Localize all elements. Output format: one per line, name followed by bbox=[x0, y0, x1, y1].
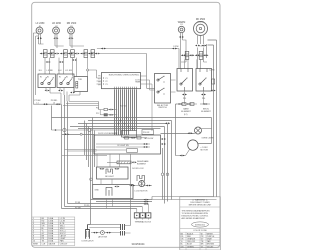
surface relay 2 bbox=[196, 69, 212, 92]
svg-text:TOD: TOD bbox=[78, 79, 83, 81]
wire to oven selector bbox=[97, 54, 155, 89]
svg-text:FAN: FAN bbox=[60, 240, 64, 243]
right element coil 1 bbox=[181, 51, 195, 59]
svg-text:B.U.: B.U. bbox=[39, 70, 43, 72]
svg-text:OV LIGHT SW: OV LIGHT SW bbox=[117, 145, 129, 147]
right bus fuse bbox=[212, 79, 215, 84]
svg-text:L2 RD: L2 RD bbox=[209, 70, 215, 72]
svg-text:P2 BK: P2 BK bbox=[75, 202, 81, 204]
svg-text:TERMINAL BLOCK: TERMINAL BLOCK bbox=[135, 220, 152, 223]
right bus wires bbox=[208, 40, 217, 197]
wire connector row left bbox=[33, 103, 61, 105]
svg-text:GREEN: GREEN bbox=[187, 246, 194, 248]
svg-text:P3 RD: P3 RD bbox=[84, 205, 90, 207]
svg-text:P20: P20 bbox=[202, 98, 205, 100]
svg-text:P1: P1 bbox=[106, 78, 108, 80]
left feeder wires bbox=[33, 33, 38, 104]
wire leads element RR bbox=[70, 34, 84, 48]
svg-text:P19: P19 bbox=[183, 98, 186, 100]
bake element resistor row bbox=[177, 103, 197, 113]
door lock motor bbox=[129, 176, 152, 187]
electronic oven control bbox=[102, 73, 142, 89]
door latch switch block bbox=[94, 135, 161, 154]
surface relay 1 bbox=[177, 69, 193, 92]
color code text bbox=[181, 232, 216, 248]
bake element bar bbox=[107, 161, 137, 164]
wires below relays bbox=[185, 91, 204, 104]
junction dots on buses bbox=[116, 117, 134, 130]
wiring table text bbox=[33, 217, 68, 246]
wires coils to switches bbox=[45, 58, 77, 77]
bus line 5 bbox=[78, 128, 161, 130]
oven temp sensor box bbox=[74, 77, 88, 92]
wire leads element LR bbox=[55, 34, 64, 48]
svg-text:CLR: CLR bbox=[42, 244, 46, 246]
svg-text:ELEMENT: ELEMENT bbox=[201, 111, 211, 113]
infinite switch 1 bbox=[38, 74, 55, 88]
svg-text:ELECTRONIC OVEN CONTROL: ELECTRONIC OVEN CONTROL bbox=[109, 75, 140, 77]
bus line 4 bbox=[70, 127, 165, 204]
svg-text:GRAY: GRAY bbox=[207, 238, 213, 241]
svg-text:P11: P11 bbox=[96, 108, 99, 110]
info warning box bbox=[180, 197, 221, 250]
terminal feed wires bbox=[62, 200, 153, 209]
svg-text:P2: P2 bbox=[106, 81, 108, 83]
svg-text:1.5KW: 1.5KW bbox=[199, 45, 205, 47]
latch wiring bbox=[88, 224, 122, 232]
wires terminal block to right bus bbox=[152, 197, 217, 200]
oven light bbox=[195, 127, 212, 134]
svg-text:ELEMENT: ELEMENT bbox=[181, 111, 191, 113]
latch switch motor bbox=[101, 231, 105, 235]
svg-text:P6: P6 bbox=[98, 76, 100, 78]
right element coil 2 bbox=[195, 51, 209, 59]
latch block top label box bbox=[142, 130, 154, 135]
latch coil block bbox=[121, 154, 131, 236]
svg-text:P9: P9 bbox=[98, 85, 100, 87]
color code table bbox=[180, 232, 221, 250]
svg-text:BEFORE SERVICING UNIT: BEFORE SERVICING UNIT bbox=[189, 205, 212, 207]
svg-text:BK LIGHT: BK LIGHT bbox=[105, 176, 114, 178]
broil element stub bbox=[200, 103, 211, 113]
svg-text:DOOR LOCK: DOOR LOCK bbox=[132, 168, 144, 170]
svg-text:ORANGE: ORANGE bbox=[187, 238, 196, 241]
wire crossing lamps bbox=[62, 150, 107, 156]
wire leads warmer element bbox=[181, 32, 187, 68]
wire bus to right elements bbox=[97, 49, 179, 69]
bus line 3 bbox=[78, 124, 168, 202]
svg-text:318550151: 318550151 bbox=[195, 224, 206, 226]
wires coils to relays bbox=[185, 59, 201, 68]
svg-text:H2: H2 bbox=[47, 77, 49, 79]
wires left of EOC bbox=[63, 102, 100, 110]
bus line 6 bbox=[52, 129, 122, 131]
svg-text:TAN: TAN bbox=[207, 240, 211, 243]
EOC ribbon comb bbox=[115, 89, 137, 135]
coil group 2 (LR element coils) bbox=[60, 50, 80, 58]
wires below switches bbox=[46, 88, 80, 105]
EOC left pin labels bbox=[98, 76, 100, 87]
wire bundle to lamps bbox=[85, 118, 95, 185]
infinite switch 2 bbox=[57, 74, 74, 88]
arrows below switches bbox=[45, 90, 50, 92]
latch block top connector bbox=[122, 131, 137, 138]
svg-text:VIOLET: VIOLET bbox=[207, 246, 215, 248]
coil group 1 (LF element coils) bbox=[40, 50, 60, 58]
svg-text:P8: P8 bbox=[98, 82, 100, 84]
bus line 2 bbox=[88, 121, 172, 200]
svg-text:P12: P12 bbox=[96, 113, 99, 115]
svg-text:H1: H1 bbox=[59, 77, 61, 79]
wire node to EOC bbox=[88, 58, 97, 78]
left drop wires bbox=[62, 95, 68, 209]
wire leads dual element RF bbox=[198, 35, 208, 68]
border frame bbox=[32, 2, 220, 247]
svg-text:H2: H2 bbox=[66, 77, 68, 79]
wires into selector bbox=[171, 80, 176, 92]
convection motor bbox=[176, 140, 199, 157]
svg-text:316253344: 316253344 bbox=[132, 242, 146, 246]
svg-text:P7: P7 bbox=[98, 79, 100, 81]
svg-text:MOTOR: MOTOR bbox=[201, 150, 209, 152]
terminal block bbox=[134, 204, 151, 220]
svg-text:CIRCUIT: CIRCUIT bbox=[60, 244, 69, 246]
junction circles on rails bbox=[161, 173, 164, 176]
connector cluster rows bbox=[96, 108, 117, 116]
svg-text:DOOR LATCH: DOOR LATCH bbox=[82, 240, 94, 243]
svg-text:16GA: 16GA bbox=[48, 240, 54, 243]
oven lamp box 1 bbox=[97, 167, 129, 179]
bus line oven light bbox=[80, 133, 82, 135]
svg-text:TIMER: TIMER bbox=[135, 82, 141, 84]
left rail to latch bbox=[88, 155, 91, 225]
coil group 3 (RR element coils) bbox=[80, 50, 100, 58]
surface element RR bbox=[68, 27, 75, 34]
node junction bbox=[87, 69, 89, 71]
box A right edge arrows bbox=[161, 138, 166, 140]
svg-text:LF 2450: LF 2450 bbox=[36, 22, 45, 25]
wire leads element LF bbox=[39, 34, 44, 44]
dual surface element RF bbox=[194, 22, 208, 36]
svg-text:P16 DR: P16 DR bbox=[143, 132, 150, 134]
svg-text:GND: GND bbox=[95, 190, 100, 192]
svg-text:P3: P3 bbox=[106, 84, 108, 86]
svg-text:P4 WH: P4 WH bbox=[75, 207, 81, 209]
svg-text:1.2KW: 1.2KW bbox=[173, 46, 179, 48]
svg-text:AND SERIES SN AB1234567: AND SERIES SN AB1234567 bbox=[182, 217, 206, 220]
svg-text:BLACK: BLACK bbox=[187, 232, 194, 235]
wiring table bottom left bbox=[32, 217, 75, 246]
svg-text:L.R. SW: L.R. SW bbox=[65, 70, 72, 72]
svg-text:LOCK MOTOR: LOCK MOTOR bbox=[135, 191, 148, 193]
svg-text:P22 GD: P22 GD bbox=[120, 106, 127, 108]
wires box links bbox=[97, 154, 119, 209]
svg-text:B.U.: B.U. bbox=[58, 70, 62, 72]
warmer element bbox=[178, 26, 184, 32]
EOC right pins bbox=[141, 76, 155, 131]
svg-text:LATCH SW: LATCH SW bbox=[144, 137, 153, 140]
oven lamp box 2 bbox=[93, 184, 133, 198]
svg-text:ELEMENT: ELEMENT bbox=[137, 163, 147, 165]
oven selector switch bbox=[155, 74, 171, 104]
svg-text:H1: H1 bbox=[40, 77, 42, 79]
svg-text:SWITCH: SWITCH bbox=[158, 107, 167, 109]
rail to conv motor bbox=[176, 104, 178, 156]
door latch solenoid bbox=[86, 225, 90, 239]
svg-text:GAUGE: GAUGE bbox=[48, 243, 56, 246]
terminal arrows above switches bbox=[46, 61, 51, 63]
surface element LR bbox=[53, 27, 60, 34]
svg-text:WIRE: WIRE bbox=[33, 244, 39, 246]
svg-text:RR 1500: RR 1500 bbox=[67, 22, 77, 25]
svg-text:OVEN LIGHT: OVEN LIGHT bbox=[202, 137, 215, 139]
svg-text:LATCH SW: LATCH SW bbox=[98, 235, 107, 238]
svg-text:14GA: 14GA bbox=[48, 217, 54, 220]
svg-text:⚠ WARNING ⚠: ⚠ WARNING ⚠ bbox=[192, 198, 208, 201]
svg-text:L.F. SW: L.F. SW bbox=[46, 70, 53, 72]
svg-text:10: 10 bbox=[33, 241, 35, 243]
surface element LF bbox=[36, 27, 43, 34]
svg-text:COLOR CODE: COLOR CODE bbox=[193, 230, 207, 232]
EOC left pin stubs bbox=[97, 78, 102, 84]
svg-text:LR 2450: LR 2450 bbox=[52, 22, 62, 25]
bus line L1 bbox=[52, 106, 212, 144]
svg-text:(L2): (L2) bbox=[184, 114, 188, 116]
